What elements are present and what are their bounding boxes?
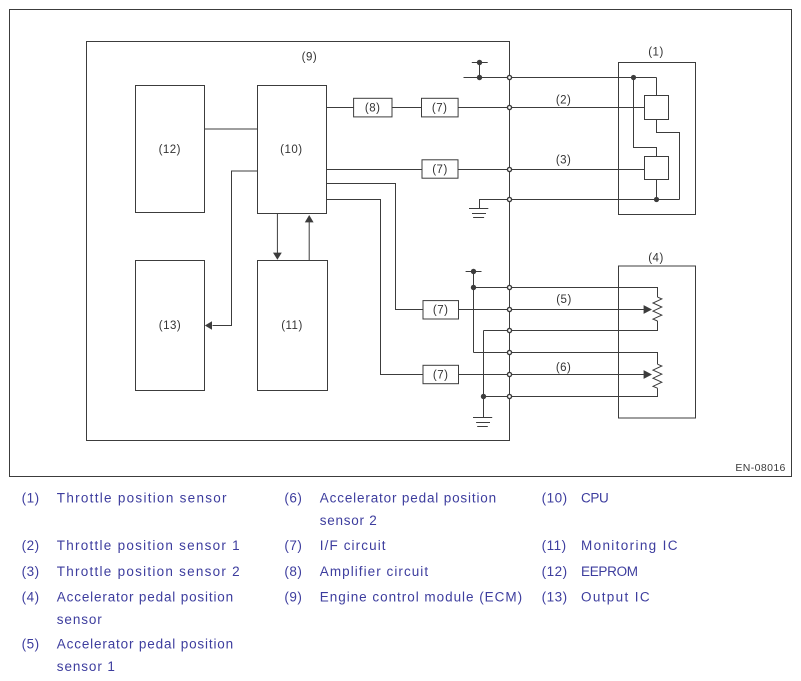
svg-text:(11): (11) (542, 538, 567, 553)
svg-text:EEPROM: EEPROM (581, 564, 638, 579)
module box U9 Engine control module (ECM) (87, 42, 510, 441)
wire U10 to U8 (327, 107, 354, 109)
block U13 Output IC (136, 261, 205, 391)
wire supply stub to pin 1 (464, 77, 510, 79)
svg-text:(1): (1) (22, 490, 40, 505)
wire node to S2 top (634, 78, 657, 157)
svg-text:sensor 1: sensor 1 (57, 659, 116, 674)
svg-text:sensor: sensor (57, 612, 103, 627)
wire U7b to pin 3 (458, 169, 510, 171)
wire U10 to U7b (327, 169, 423, 171)
wire sensor ground stub (480, 200, 510, 209)
sensor box U1 Throttle position sensor (619, 63, 696, 215)
pin 10 (return 2) (507, 394, 511, 398)
wire U10 to U13 (output path) (213, 171, 258, 326)
svg-text:(7): (7) (432, 164, 448, 176)
svg-text:EN-08016: EN-08016 (735, 462, 785, 474)
block U7b I/F circuit (422, 160, 458, 178)
svg-text:Throttle position sensor 2: Throttle position sensor 2 (57, 564, 241, 579)
svg-text:CPU: CPU (581, 490, 608, 505)
pin 6 (signal 5) (507, 307, 511, 311)
pin 8 (VCC2b) (507, 350, 511, 354)
junction dot node B (S2 ground) (654, 197, 659, 202)
svg-text:(3): (3) (22, 564, 40, 579)
arrowhead wiper R2 (644, 370, 652, 379)
svg-text:(10): (10) (542, 490, 568, 505)
svg-text:Accelerator pedal position: Accelerator pedal position (57, 590, 234, 605)
wire U7d to pin 6 (459, 374, 510, 376)
block U11 Monitoring IC (258, 261, 328, 391)
wire U7c to pin 5 (459, 309, 510, 311)
svg-text:(7): (7) (433, 369, 449, 381)
wire net 5 (pedal signal 1 wiper) (510, 309, 644, 311)
svg-text:(2): (2) (556, 94, 572, 106)
block U10 CPU (258, 86, 327, 214)
wire U10 to U7c (327, 184, 424, 310)
svg-text:(9): (9) (302, 51, 318, 63)
svg-text:(7): (7) (284, 538, 302, 553)
wire U10 to U7d (327, 200, 424, 375)
power symbol VB1 (sensor supply) (472, 62, 488, 64)
svg-text:sensor 2: sensor 2 (320, 513, 378, 528)
arrowhead wiper R1 (644, 305, 652, 314)
resistor R2 (pedal pot 2) (653, 364, 662, 388)
block U12 EEPROM (136, 86, 205, 213)
junction dot VB1 on wire (477, 75, 482, 80)
sensor element S1 (throttle sensor 1) (645, 96, 669, 120)
ground GND1 (469, 208, 488, 210)
svg-text:Monitoring IC: Monitoring IC (581, 538, 679, 553)
block U7a I/F circuit (422, 98, 459, 117)
svg-text:(4): (4) (22, 590, 40, 605)
svg-text:Amplifier circuit: Amplifier circuit (320, 564, 429, 579)
svg-text:Output IC: Output IC (581, 590, 651, 605)
svg-text:Engine control module (ECM): Engine control module (ECM) (320, 590, 523, 605)
wire return branch down (483, 331, 485, 418)
wire VCC2 branch down (473, 288, 475, 353)
svg-text:(8): (8) (365, 103, 381, 115)
wire net pot2 bottom return (484, 388, 658, 396)
wire S2 bottom lead (656, 180, 658, 200)
svg-text:Throttle position sensor 1: Throttle position sensor 1 (57, 538, 241, 553)
svg-text:(1): (1) (648, 47, 664, 59)
svg-text:(6): (6) (556, 362, 572, 374)
power symbol VB2 (pedal sensor supply) (466, 271, 482, 273)
svg-text:(7): (7) (433, 305, 449, 317)
ground GND2 (473, 417, 492, 419)
junction dot node A (VCC in U1) (631, 75, 636, 80)
svg-text:(2): (2) (22, 538, 40, 553)
svg-text:(13): (13) (542, 590, 568, 605)
wire net VCC1 to throttle sensor (510, 77, 634, 79)
wire net to pot2 top (474, 353, 658, 365)
wire U7a to pin 2 (458, 107, 509, 109)
svg-text:(5): (5) (556, 294, 572, 306)
pin 7 (return) (507, 328, 511, 332)
svg-text:(4): (4) (648, 253, 664, 265)
block U7c I/F circuit (423, 301, 459, 319)
pin 9 (signal 6) (507, 372, 511, 376)
wire net VCC2 to pot1 top (474, 288, 658, 298)
svg-text:(7): (7) (432, 103, 448, 115)
svg-text:Accelerator pedal position: Accelerator pedal position (57, 637, 234, 652)
wire net pot1 bottom return (484, 321, 658, 331)
arrowhead into U11 (273, 253, 282, 260)
wire net 3 (throttle signal 2) (510, 169, 645, 171)
svg-text:(3): (3) (556, 155, 572, 167)
border frame (10, 10, 792, 477)
arrowhead into U10 (305, 215, 314, 222)
arrowhead into U13 (205, 321, 212, 329)
block U7d I/F circuit (423, 365, 459, 383)
junction dot VB2 top (471, 269, 476, 274)
junction dot VB1 top (477, 60, 482, 65)
resistor R1 (pedal pot 1) (653, 297, 662, 321)
svg-text:(12): (12) (159, 144, 181, 156)
wire U12 to U10 (205, 128, 258, 130)
svg-text:(6): (6) (284, 490, 302, 505)
svg-text:(13): (13) (159, 320, 181, 332)
wire S1 bottom bypass (657, 120, 680, 200)
wire U11 to U10 (up) (308, 222, 310, 261)
pin 4 (sensor ground) (507, 197, 511, 201)
sensor element S2 (throttle sensor 2) (645, 157, 669, 180)
wire net 2 (throttle signal 1) (510, 107, 645, 109)
svg-text:(10): (10) (280, 144, 302, 156)
junction dot return/ground (481, 394, 486, 399)
sensor box U4 Accelerator pedal position sensor (619, 266, 696, 418)
block U8 Amplifier circuit (354, 98, 392, 117)
svg-text:(8): (8) (284, 564, 302, 579)
wire U8 to U7a (392, 107, 422, 109)
svg-text:(5): (5) (22, 637, 40, 652)
svg-text:Throttle position sensor: Throttle position sensor (57, 490, 228, 505)
svg-text:(9): (9) (284, 590, 302, 605)
pin 5 (VCC2) (507, 285, 511, 289)
pin 1 (supply) (507, 75, 511, 79)
wire net 6 (pedal signal 2 wiper) (510, 374, 644, 376)
svg-text:(11): (11) (281, 320, 303, 332)
svg-text:Accelerator pedal position: Accelerator pedal position (320, 490, 497, 505)
wire net sensor ground (510, 199, 680, 201)
pin 3 (507, 167, 511, 171)
svg-text:I/F circuit: I/F circuit (320, 538, 387, 553)
pin 2 (507, 105, 511, 109)
wire U10 to U11 (down) (276, 214, 278, 254)
svg-text:(12): (12) (542, 564, 568, 579)
junction dot VB2 on wire (471, 285, 476, 290)
